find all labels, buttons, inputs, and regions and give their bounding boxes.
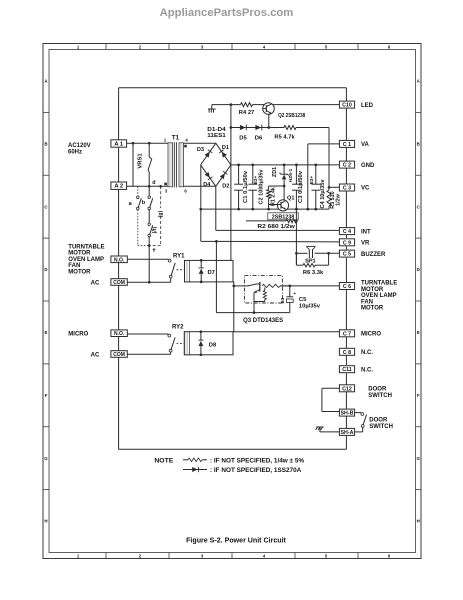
svg-text:E3+: E3+: [253, 176, 258, 185]
note diode text: [210, 467, 302, 474]
connector C12: [339, 385, 354, 393]
connector C1: [339, 140, 369, 148]
wire RY1 actuator dashed: [177, 269, 185, 271]
svg-text:D: D: [44, 267, 47, 272]
wire secondary top to bridge: [184, 142, 216, 144]
svg-text:11ES1: 11ES1: [207, 133, 226, 139]
wire GND rail: [231, 164, 340, 167]
diode D6: [255, 125, 261, 131]
svg-text:COM: COM: [113, 280, 125, 286]
label SP1: [305, 259, 316, 265]
svg-text:R6 3.3k: R6 3.3k: [303, 270, 324, 276]
connector SH-A: [339, 428, 354, 436]
label T1: [172, 135, 180, 142]
svg-text:C 7: C 7: [343, 331, 351, 337]
wire NO1 line: [127, 258, 168, 260]
svg-text:RY2: RY2: [172, 325, 184, 331]
label D4: [203, 182, 211, 188]
wire D5/D6 row: [230, 126, 284, 129]
svg-text:SH-B: SH-B: [341, 411, 354, 417]
relay RY1 coil box: [185, 260, 234, 282]
label R4 27: [239, 110, 254, 116]
svg-text:SP1: SP1: [305, 259, 316, 265]
svg-text:N.O.: N.O.: [114, 257, 125, 263]
resistor R4: [241, 103, 253, 107]
terminal N.O. y=333.2: [111, 330, 127, 337]
terminal A2: [111, 182, 127, 190]
svg-text:C 6: C 6: [343, 284, 351, 290]
label D1: [222, 145, 229, 151]
wire VA to C1 connector: [308, 144, 340, 209]
label R1 2.4k: [270, 187, 276, 206]
svg-text:MOTOR: MOTOR: [361, 306, 384, 312]
svg-text:: IF NOT SPECIFIED, 1/4w ± 5%: : IF NOT SPECIFIED, 1/4w ± 5%: [210, 458, 304, 465]
wire Q2 collector drop: [267, 114, 270, 129]
wire Q3 collector line to C6: [234, 285, 340, 288]
svg-text:N.O.: N.O.: [114, 331, 125, 337]
wire GND vertical: [230, 105, 232, 261]
svg-text:C12: C12: [342, 386, 352, 392]
diode D5: [240, 125, 246, 131]
svg-text:C4 10µ/35v: C4 10µ/35v: [320, 179, 326, 209]
wire connector chain: [345, 108, 347, 429]
wire gnd/R4 line: [212, 104, 339, 106]
svg-text:Q1: Q1: [287, 196, 294, 202]
label ZD1: [272, 167, 278, 177]
label HZ6-1: [288, 169, 294, 183]
svg-text:Figure S-2. Power Unit Circuit: Figure S-2. Power Unit Circuit: [186, 537, 287, 544]
figure caption: [186, 537, 287, 544]
wire secondary bottom to bridge: [184, 185, 216, 187]
svg-text:NOTE: NOTE: [154, 459, 173, 465]
wire RY1 coil bottom to Q3 line: [232, 282, 235, 332]
transistor Q2: [263, 103, 275, 115]
label RY1: [173, 254, 185, 260]
bridge rectifier D1-D4 diamond: [201, 143, 231, 186]
svg-text:C 4: C 4: [343, 229, 351, 235]
svg-text:10µ/35v: 10µ/35v: [299, 303, 321, 309]
svg-text:FAN: FAN: [68, 263, 80, 269]
wire main outline top: [119, 88, 347, 102]
svg-text:E: E: [417, 330, 420, 335]
switch (/t): [148, 210, 153, 246]
transistor Q1: [277, 200, 288, 211]
label (g): [158, 210, 164, 217]
svg-text:TURNTABLE: TURNTABLE: [68, 244, 104, 250]
wire INT line: [216, 229, 340, 231]
node Q3 emitter junction: [253, 311, 256, 314]
label C5 10u/35v: [299, 297, 321, 309]
svg-text:D4: D4: [203, 182, 211, 188]
svg-text:DOOR: DOOR: [369, 418, 388, 424]
node e junction: [148, 244, 151, 282]
label 2SB1238 boxed: [268, 213, 298, 221]
wire main outline bottom: [119, 435, 347, 449]
svg-text:MICRO: MICRO: [361, 332, 381, 338]
svg-text:MICRO: MICRO: [68, 331, 88, 337]
svg-text:AC: AC: [91, 353, 100, 359]
transistor Q3 DTD143ES box: [244, 276, 282, 303]
transformer T1: [168, 142, 184, 187]
svg-text:OVEN LAMP: OVEN LAMP: [361, 293, 397, 299]
label R3 510 1/2w: [330, 191, 342, 208]
label C1 0.1u/50v: [243, 170, 249, 203]
svg-text:OVEN LAMP: OVEN LAMP: [68, 257, 104, 263]
wire R5 to VC: [296, 128, 329, 188]
resistor R1: [267, 186, 271, 209]
wire a-chain down: [138, 210, 149, 246]
svg-text:: IF NOT SPECIFIED, 1SS270A: : IF NOT SPECIFIED, 1SS270A: [210, 467, 302, 474]
label AC120V 60Hz: [68, 143, 91, 156]
switch b: [148, 186, 153, 210]
label C2 1000u/35v: [259, 169, 265, 205]
svg-text:1/2w: 1/2w: [336, 193, 342, 205]
label MICRO: [68, 331, 88, 337]
frame column numbers: [77, 44, 391, 558]
wire VA rail: [201, 208, 329, 211]
svg-text:D8: D8: [209, 343, 217, 349]
svg-text:VC: VC: [361, 186, 370, 192]
wire bridge bottom to INT: [215, 186, 217, 230]
label R2 680 1/2w: [257, 224, 295, 230]
label D1-D4 11ES1: [207, 127, 227, 139]
svg-text:C 8: C 8: [343, 350, 351, 356]
connector C7: [339, 330, 381, 338]
resistor R2: [246, 219, 298, 223]
label R6 3.3k: [303, 270, 324, 276]
svg-text:E: E: [45, 330, 48, 335]
svg-text:R1 2.4k: R1 2.4k: [270, 187, 276, 206]
svg-text:+: +: [293, 292, 296, 297]
diode D3: [205, 150, 213, 158]
wire A1 drop to A2 line: [132, 143, 134, 186]
wire GND rail to C2 connector (already rail): [0, 0, 1, 1]
label E3+ (C4 polarity): [309, 176, 314, 185]
wire A2 line: [127, 185, 168, 188]
label e: [153, 247, 156, 253]
svg-text:GND: GND: [361, 163, 375, 169]
resistor R6: [296, 253, 328, 267]
svg-text:VRS1: VRS1: [138, 153, 144, 169]
connector C6: [339, 283, 354, 291]
wire Q1 base: [269, 204, 278, 206]
svg-text:C 5: C 5: [343, 252, 351, 258]
svg-text:TURNTABLE: TURNTABLE: [361, 281, 397, 287]
wire (g) dashed chain: [151, 186, 161, 245]
svg-text:T1: T1: [172, 135, 180, 142]
label D7: [208, 270, 215, 276]
svg-text:(g): (g): [158, 210, 164, 217]
svg-text:INT: INT: [361, 229, 371, 235]
svg-text:AppliancePartsPros.com: AppliancePartsPros.com: [160, 7, 294, 19]
label C6 TURNTABLE MOTOR OVEN LAMP FAN MOTOR: [361, 281, 397, 312]
connector C2: [339, 161, 375, 169]
door switch contact (SH): [355, 413, 367, 432]
label R5 4.7k: [274, 134, 295, 140]
label C4 10u/35v: [320, 179, 326, 209]
capacitor C3: [292, 165, 301, 209]
svg-text:MOTOR: MOTOR: [68, 269, 91, 275]
connector C8: [339, 348, 373, 356]
label VRS1: [138, 153, 144, 169]
svg-text:F: F: [417, 393, 420, 398]
svg-text:E3+: E3+: [309, 176, 314, 185]
svg-text:G: G: [44, 456, 48, 461]
label d: [152, 180, 155, 186]
label AC (RY1): [91, 280, 100, 286]
terminal N.O. y=259.3: [111, 256, 127, 263]
connector C10: [339, 101, 373, 109]
label E3+ (C2 polarity): [253, 176, 258, 185]
wire VR/Q3 feed vertical: [216, 241, 289, 312]
connector C9: [339, 239, 370, 247]
wire VR line: [215, 240, 339, 243]
wire NO2 line: [127, 333, 168, 335]
svg-text:AC: AC: [91, 280, 100, 286]
svg-text:C2 1000µ/35v: C2 1000µ/35v: [259, 169, 265, 205]
label Q1: [287, 196, 294, 202]
label a: [129, 201, 133, 207]
connector C5: [339, 250, 386, 258]
terminal COM y=354.0: [111, 351, 127, 358]
relay RY2 coil box: [184, 332, 233, 355]
svg-text:N.C.: N.C.: [361, 350, 373, 356]
label D2: [222, 184, 229, 190]
diode D8: [198, 330, 203, 356]
svg-text:B: B: [44, 141, 47, 146]
relay RY1 contact: [168, 259, 175, 278]
label RY2: [172, 325, 184, 331]
resistor R5: [284, 126, 296, 130]
svg-text:SWITCH: SWITCH: [368, 393, 392, 399]
svg-text:D2: D2: [222, 184, 229, 190]
label AC (RY2): [91, 353, 100, 359]
note diode symbol: [183, 467, 207, 472]
svg-text:LED: LED: [361, 103, 374, 109]
pin 6: [184, 189, 187, 194]
svg-text:Q3 DTD143ES: Q3 DTD143ES: [243, 318, 283, 324]
svg-text:MOTOR: MOTOR: [68, 251, 91, 257]
wire A1 line: [127, 142, 168, 145]
wire bridge left corner to VA rail and VR: [199, 165, 216, 242]
svg-text:R2 680 1/2w: R2 680 1/2w: [257, 224, 295, 230]
wire buzzer line: [295, 252, 339, 255]
svg-text:R5 4.7k: R5 4.7k: [274, 134, 295, 140]
label TURNTABLE MOTOR OVEN LAMP FAN MOTOR: [68, 244, 104, 275]
connector SH-B: [339, 409, 354, 417]
wire COM2 line: [127, 352, 170, 354]
zener ZD1: [280, 165, 289, 186]
svg-text:N.C.: N.C.: [361, 367, 373, 373]
varistor VRS1: [148, 143, 152, 186]
terminal COM y=282.0: [111, 279, 127, 286]
connector C4: [339, 228, 371, 236]
polarity dot secondary: [184, 145, 187, 148]
svg-text:D6: D6: [255, 135, 263, 141]
transistor Q3 internals: [248, 282, 290, 313]
svg-text:C3 0.1µ/50v: C3 0.1µ/50v: [298, 170, 304, 203]
svg-text:C10: C10: [342, 103, 352, 109]
frame tick marks: [43, 44, 421, 559]
svg-text:DOOR: DOOR: [368, 386, 387, 392]
border frame inner: [49, 50, 416, 553]
svg-text:Q2 2SB1238: Q2 2SB1238: [278, 113, 306, 119]
switch a: [137, 186, 142, 210]
wire C12 to SH-B loop: [322, 388, 340, 411]
svg-text:C 1: C 1: [343, 142, 351, 148]
svg-text:BUZZER: BUZZER: [361, 252, 386, 258]
svg-text:(/t): (/t): [152, 226, 158, 233]
wire C3 column below rail: [295, 209, 297, 264]
label door switch (SH): [369, 418, 393, 431]
relay RY2 contact: [168, 334, 175, 352]
pin 1: [164, 138, 167, 143]
capacitor C1: [234, 165, 243, 209]
label Q3 DTD143ES: [243, 318, 283, 324]
svg-text:R4 27: R4 27: [239, 110, 254, 116]
svg-text:e: e: [153, 247, 156, 253]
svg-text:ZD1: ZD1: [272, 167, 278, 177]
wire COM1 line: [127, 278, 170, 284]
watermark header text: [160, 7, 294, 19]
svg-text:G: G: [416, 456, 420, 461]
diode D2: [220, 171, 228, 179]
resistor R3: [327, 187, 331, 209]
svg-text:D5: D5: [239, 135, 247, 141]
polarity dot primary: [164, 183, 167, 186]
svg-text:A 1: A 1: [114, 142, 124, 148]
label D6: [255, 135, 263, 141]
label D3: [197, 147, 204, 153]
border frame outer: [43, 44, 421, 559]
capacitor C5: [286, 286, 296, 313]
svg-text:E3: E3: [280, 297, 285, 303]
label Q2 2SB1238: [278, 113, 306, 119]
svg-text:D7: D7: [208, 270, 215, 276]
label b: [142, 200, 146, 206]
svg-text:C 9: C 9: [343, 240, 351, 246]
wire MICRO line: [233, 331, 339, 333]
frame row letters: [44, 79, 420, 524]
svg-text:D: D: [417, 267, 420, 272]
capacitor C2: [248, 165, 257, 209]
label C12 DOOR SWITCH: [368, 386, 392, 399]
wire ZD1 to R1: [269, 185, 285, 187]
connector C3: [339, 184, 370, 192]
diode D7: [199, 259, 204, 283]
svg-text:SH-A: SH-A: [341, 430, 354, 436]
svg-text:RY1: RY1: [173, 254, 185, 260]
svg-text:COM: COM: [113, 352, 125, 358]
pin 4: [185, 138, 188, 143]
terminal A1: [111, 140, 127, 148]
wire main outline left: [118, 88, 120, 450]
svg-text:H: H: [44, 519, 47, 524]
note text: [154, 459, 173, 465]
svg-text:D1: D1: [222, 145, 229, 151]
label C3 0.1u/50v: [298, 170, 304, 203]
svg-text:D3: D3: [197, 147, 204, 153]
diode D4: [205, 172, 213, 180]
note resistor symbol: [183, 458, 207, 462]
connector C11: [339, 366, 373, 374]
label E3 (C5): [280, 297, 285, 303]
buzzer SP1: [306, 246, 315, 258]
svg-text:C1 0.1µ/50v: C1 0.1µ/50v: [243, 170, 249, 203]
svg-text:MOTOR: MOTOR: [361, 287, 384, 293]
svg-text:VA: VA: [361, 142, 370, 148]
svg-text:C11: C11: [342, 367, 351, 373]
svg-text:VR: VR: [361, 241, 370, 247]
svg-text:B: B: [417, 141, 420, 146]
svg-text:C 2: C 2: [343, 163, 351, 169]
svg-text:F: F: [45, 393, 48, 398]
node ZD1 bottom: [283, 185, 286, 201]
label (/t): [152, 226, 158, 233]
svg-text:C 3: C 3: [343, 186, 351, 192]
label D8: [209, 343, 217, 349]
svg-text:SWITCH: SWITCH: [369, 424, 393, 430]
diode D1: [219, 150, 227, 158]
note resistor text: [210, 458, 304, 465]
ground symbol: [208, 105, 216, 113]
svg-text:d: d: [152, 180, 155, 186]
capacitor C4: [311, 165, 320, 209]
svg-text:AC120V: AC120V: [68, 143, 91, 149]
svg-text:HZ6-1: HZ6-1: [288, 169, 294, 183]
svg-text:b: b: [142, 200, 146, 206]
node R4/GND junction: [230, 103, 233, 106]
label D5: [239, 135, 247, 141]
pin 3: [165, 189, 168, 194]
chassis ground symbol: [316, 427, 340, 432]
wire RY2 actuator dashed: [176, 342, 184, 344]
svg-text:60Hz: 60Hz: [68, 150, 82, 156]
svg-text:C5: C5: [299, 297, 307, 303]
svg-text:A 2: A 2: [114, 184, 123, 190]
svg-text:H: H: [417, 519, 420, 524]
svg-text:FAN: FAN: [361, 299, 373, 305]
node VC junction: [328, 186, 340, 189]
